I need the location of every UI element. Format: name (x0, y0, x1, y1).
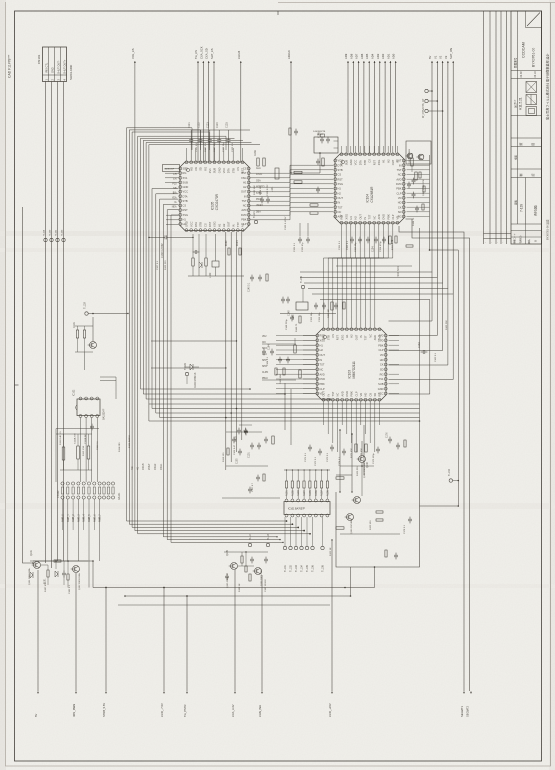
net SHT_ON wire (452, 61, 454, 63)
svg-text:C187 10/16V: C187 10/16V (265, 579, 267, 592)
net CCD+15V wire (331, 540, 333, 691)
transistor Q104 (359, 456, 366, 463)
net SEGMT1 arrow (463, 692, 465, 694)
test point TL140 (449, 479, 452, 482)
svg-text:C174 0.1: C174 0.1 (339, 456, 341, 466)
svg-text:C154 470p: C154 470p (380, 241, 382, 252)
box M3B connector left of IC104 (314, 137, 338, 153)
test point TL131 (56, 238, 59, 241)
wire Q104 top (361, 441, 363, 456)
capacitor C105 (238, 450, 242, 452)
jumper J3 (425, 109, 428, 112)
capacitor C179 (394, 554, 398, 556)
svg-text:C131 0.1: C131 0.1 (294, 242, 296, 252)
capacitor C154 (374, 238, 378, 240)
svg-text:C133 0.022: C133 0.022 (267, 184, 269, 196)
wire cluster2 rails (224, 551, 268, 553)
svg-text:Q102 2SD1819A: Q102 2SD1819A (78, 573, 81, 590)
capacitor C132 (306, 238, 310, 240)
wire IC102 pin drops (80, 418, 82, 483)
title block diagonal cell (525, 11, 527, 28)
capacitor C151 (350, 238, 354, 240)
resistor R148 (289, 128, 291, 135)
svg-text:R133 10K: R133 10K (254, 185, 256, 195)
capacitor C158 (281, 298, 285, 300)
svg-text:NEA: NEA (172, 206, 177, 209)
cluster2 extra parts (245, 566, 247, 572)
resistor R149 (299, 316, 301, 323)
test point TL135 (301, 285, 304, 288)
scan paper edge bottom (5, 765, 551, 767)
capacitor C146 (320, 138, 324, 140)
wire nest IC103 right side loop (389, 272, 433, 321)
test point TL116 (266, 543, 269, 546)
resistor R163 (275, 368, 277, 375)
svg-text:C125 0.1: C125 0.1 (232, 142, 234, 152)
wire to SEGMT1 (399, 226, 464, 691)
wire cluster rails bottom middle (226, 431, 262, 433)
svg-text:R151 4.7K: R151 4.7K (392, 239, 394, 250)
svg-text:BIA: BIA (173, 192, 177, 195)
capacitor C193 (415, 207, 419, 209)
capacitor C103 (264, 438, 268, 440)
title block bottom header cells (511, 230, 542, 232)
svg-text:R188 1K: R188 1K (239, 583, 241, 592)
net CCD_-7.5V arrow (163, 588, 165, 692)
wire IC105 upper left pins short stubs (165, 168, 179, 170)
net V3 wire (447, 61, 449, 63)
wire bottom rail C (33, 560, 93, 562)
resistor R145 (411, 158, 413, 166)
resistor R161 (294, 345, 296, 353)
svg-text:C135 0.1/25V: C135 0.1/25V (285, 216, 287, 230)
resistor R113A (87, 446, 90, 459)
resistor network RA102 (102, 482, 105, 485)
resistor R181 (47, 570, 49, 577)
svg-text:R110 150: R110 150 (223, 452, 225, 462)
svg-text:Q101 2SB1218A: Q101 2SB1218A (28, 568, 31, 585)
component on M3B box top (321, 134, 325, 137)
capacitor C181 (62, 572, 66, 574)
capacitor C134 (266, 198, 270, 200)
resistor R113 (263, 474, 265, 481)
frame tick top center (277, 11, 279, 15)
connector CN101 table (43, 47, 67, 82)
wire IC104 right pins to rail (407, 160, 430, 162)
svg-text:C164 0.1: C164 0.1 (267, 356, 269, 366)
jumper J2 (425, 99, 428, 102)
regulator IC106 box (163, 165, 180, 172)
wire IC103 left rail (262, 343, 296, 345)
svg-text:C148 220p: C148 220p (286, 319, 288, 330)
wire transistor area rails (340, 465, 374, 467)
wire mid bundle extra line (149, 404, 420, 421)
resistor R185 (241, 556, 243, 563)
test point TL126 (185, 372, 188, 375)
resistor R171 (355, 444, 357, 452)
wire drops from bundle top east ends (191, 128, 193, 150)
svg-text:R163 10K: R163 10K (280, 374, 282, 384)
capacitor C133 (260, 198, 264, 200)
net TG_CS (197, 61, 199, 63)
capacitor C104 (244, 430, 248, 432)
capacitor C127 (194, 250, 196, 254)
svg-text:C123 18p: C123 18p (214, 142, 216, 152)
wire mid horizontal y368 (151, 367, 226, 369)
diode D103 (30, 572, 33, 578)
svg-text:C151 0.1: C151 0.1 (339, 240, 341, 250)
capacitor C162 (278, 358, 282, 360)
capacitor C186 (264, 558, 268, 560)
svg-text:C121 0.1: C121 0.1 (196, 142, 198, 152)
transistor Q101 (34, 562, 41, 569)
net STRB_5.5V arrow (105, 588, 107, 692)
resistor R126 (266, 274, 268, 281)
resistor R137 (263, 158, 265, 166)
wire IC103 right remaining stubs (389, 335, 400, 337)
svg-text:Q105 2SB1132: Q105 2SB1132 (227, 572, 229, 588)
capacitor C106 (232, 438, 236, 440)
svg-text:C172 0.1: C172 0.1 (315, 456, 317, 466)
capacitor C191 (412, 179, 416, 181)
resistor R127 (192, 258, 194, 266)
resistor R121 (336, 477, 344, 479)
resistor R162 (299, 370, 301, 378)
svg-text:C173 0.1: C173 0.1 (327, 452, 329, 462)
capacitor C144 (258, 276, 262, 278)
resistor R124 (239, 248, 241, 255)
wire bundle IC105 left pin lines (152, 189, 420, 409)
diode D104 (190, 364, 193, 370)
capacitor C140 (250, 276, 254, 278)
resistor R122 (336, 527, 344, 529)
frame tick left middle (15, 384, 19, 386)
cluster1 wire verticals (55, 561, 57, 569)
scan paper edge right (550, 2, 552, 766)
wire RA101 drops (67, 499, 69, 561)
resistor R132 (294, 181, 302, 183)
capacitor C176 (388, 438, 392, 440)
net SHT_CS (213, 61, 215, 63)
net CXA_3.3V arrow (234, 570, 236, 691)
transistor Q109 (354, 497, 361, 504)
wire right rail (419, 228, 421, 475)
resistor R192 (423, 186, 425, 192)
capacitor C173 (330, 446, 334, 448)
resistor R151 (389, 236, 391, 244)
resistor R112 (77, 446, 80, 459)
svg-text:R123 150: R123 150 (370, 520, 372, 530)
wire CN101 pin1 (45, 82, 47, 564)
net CXA_SCK (202, 61, 204, 63)
capacitor C165 (262, 350, 266, 352)
svg-text:C171 0.1: C171 0.1 (305, 452, 307, 462)
svg-text:R187 47K: R187 47K (45, 582, 47, 592)
capacitor C119 (244, 429, 248, 431)
wire TL135 stub (302, 289, 304, 302)
svg-text:R120 330: R120 330 (357, 466, 359, 476)
wire left 5V rail (23, 207, 34, 563)
svg-text:R157 1M: R157 1M (328, 309, 330, 318)
wire IC105 top pin stubs (186, 148, 188, 161)
svg-text:R171 47K: R171 47K (351, 448, 353, 458)
capacitor C145 (407, 183, 411, 185)
net SEGMT2 arrow (470, 692, 472, 694)
capacitor C118 (237, 429, 241, 431)
wire IC102 lower rails (56, 428, 99, 430)
svg-text:C153 18p: C153 18p (355, 242, 357, 252)
wire rail above resistor row (284, 469, 330, 471)
capacitor row C121-C125 above IC105 (192, 129, 250, 131)
svg-text:C122 0.1: C122 0.1 (205, 142, 207, 152)
capacitor C142 (316, 188, 320, 190)
net VOL_CS (134, 61, 136, 63)
transistor Q107 (407, 153, 413, 159)
transistor Q110 (347, 514, 354, 521)
svg-text:C152 0.1: C152 0.1 (347, 240, 349, 250)
net TG_PSTR arrow (186, 596, 188, 691)
net CLK24 (240, 61, 242, 63)
title block sheet cell divider (525, 178, 527, 225)
svg-text:C156 18p: C156 18p (319, 312, 321, 322)
capacitor C102 (257, 444, 261, 446)
resistor R191 (419, 172, 421, 178)
inductor L101 (275, 168, 279, 179)
resistor R111 (62, 447, 65, 460)
svg-text:Q109 2SC4081: Q109 2SC4081 (351, 518, 353, 534)
capacitor C141 (316, 160, 320, 162)
capacitor C107 (256, 476, 260, 478)
transistor Q106 (255, 568, 262, 575)
junction dots (124, 595, 126, 597)
svg-text:C106 0.47: C106 0.47 (234, 444, 236, 455)
resistor R172 (365, 444, 367, 452)
wire IC104 right pin rail (429, 155, 431, 250)
svg-text:CH: CH (173, 174, 177, 176)
capacitor C108 (248, 488, 252, 490)
digital signal processor IC103 (317, 329, 386, 400)
svg-text:Q104 2SK1398: Q104 2SK1398 (364, 462, 366, 478)
svg-text:C163 0.1: C163 0.1 (435, 352, 437, 362)
resistor R193 (422, 204, 424, 210)
svg-text:C182 0.1: C182 0.1 (69, 584, 71, 594)
wire bottom rail A (93, 567, 375, 588)
resistor R122 (228, 248, 230, 255)
capacitor C156 (322, 304, 326, 306)
resistor R152 (395, 236, 397, 243)
transistor Q108 (418, 154, 424, 160)
resistor R157 (331, 302, 333, 310)
capacitor C101 (250, 444, 254, 446)
transistor Q105 (231, 563, 238, 570)
wire bus IC104 to IC103 (324, 225, 342, 328)
resistor R131 (294, 171, 302, 173)
wire Q103 rails (75, 325, 93, 327)
wire M3B to IC104 (334, 140, 339, 142)
wire X151 rail (280, 313, 336, 315)
capacitor C175 (376, 448, 380, 450)
capacitor C157 (286, 298, 290, 300)
title block kanji header column (517, 11, 519, 224)
resistor R136 (257, 158, 259, 166)
op-amp IC102 (77, 399, 100, 416)
wire CN101 pin2 (51, 82, 53, 569)
inductor L102 (212, 261, 219, 267)
resistor R141 (322, 158, 324, 166)
capacitor C177 (396, 444, 400, 446)
wire bus IC105 to IC104 (251, 165, 334, 173)
capacitor C192 (412, 193, 416, 195)
resistor R109 (272, 436, 274, 444)
wire IC103 bottom drops (323, 402, 325, 426)
svg-text:C155 18p: C155 18p (311, 312, 313, 322)
capacitor C139 (148, 237, 150, 239)
svg-text:C127 0.1: C127 0.1 (157, 260, 159, 270)
cluster1 extra: resistor R183 (67, 574, 69, 580)
net 5V top wire (431, 61, 433, 63)
wire IC104 top pin stubs (341, 146, 343, 153)
wire IC105 lower-left pin stubs (166, 214, 179, 216)
resistor R175 (404, 440, 406, 447)
resistor R158 (343, 302, 345, 309)
test point TL119 (44, 238, 47, 241)
svg-text:C111 0.1: C111 0.1 (97, 441, 99, 450)
svg-text:R112 1.5K: R112 1.5K (83, 445, 85, 456)
shield box outline (336, 475, 420, 567)
capacitor C153 (366, 238, 370, 240)
capacitor C152 (358, 238, 362, 240)
capacitor C131 (298, 238, 302, 240)
title block outline (511, 11, 542, 244)
capacitor C155 (314, 304, 318, 306)
wire IC103 left drop 2 (290, 389, 292, 445)
scan paper edge left (5, 2, 7, 766)
net V1 wire (436, 61, 438, 63)
analog front end IC104 (335, 154, 404, 223)
wire bundle through lines with top corners (127, 128, 287, 521)
resistor R123 (376, 511, 383, 513)
driver IC101 (284, 502, 330, 515)
resistor R164 (283, 368, 285, 375)
wire mid horizontal y341 (151, 340, 237, 342)
resistor R186 (249, 574, 251, 581)
resistor R176 (385, 550, 387, 557)
wire RA101 lower links (62, 499, 64, 530)
capacitor C147 (326, 138, 330, 140)
net 5V arrow (37, 570, 39, 691)
svg-text:C132 47p: C132 47p (302, 242, 304, 252)
svg-text:Q106 2SD1782K: Q106 2SD1782K (261, 569, 263, 586)
svg-text:Q107 2SC4081: Q107 2SC4081 (409, 148, 411, 164)
wire bottom rail B (125, 567, 351, 596)
resistor row R101-R108 (285, 481, 287, 488)
svg-text:R134 10K: R134 10K (260, 185, 262, 195)
svg-text:P10: P10 (172, 183, 177, 185)
svg-text:R149 75: R149 75 (296, 323, 298, 332)
capacitor C161 (286, 358, 290, 360)
capacitor C178 (408, 518, 412, 520)
svg-text:R172 47K: R172 47K (361, 448, 363, 458)
IC103 left pin extended stubs (276, 335, 316, 337)
wire IC103 left drop 1 (284, 383, 286, 430)
resistor R128 (205, 258, 207, 266)
wire IC103 bottom long drops to shield box (339, 430, 341, 492)
wire to SEGMT2 (406, 219, 470, 691)
capacitor C185 (225, 575, 229, 577)
title block revision columns (483, 11, 485, 244)
svg-text:R125 220: R125 220 (165, 260, 167, 270)
wire CN101 pin3 (57, 82, 59, 562)
transistor Q102 (73, 566, 80, 573)
capacitor C171 (308, 446, 312, 448)
wire IC103 left stubs (303, 335, 316, 337)
svg-text:C107 4.7: C107 4.7 (252, 482, 254, 492)
capacitor C164 (270, 350, 274, 352)
svg-text:Q108 2SA1037K: Q108 2SA1037K (422, 179, 425, 196)
svg-text:R165 22K: R165 22K (446, 320, 448, 330)
box shield around Q107 Q108 (406, 141, 431, 164)
test point TL133 (62, 238, 65, 241)
test point TL108 (321, 546, 324, 549)
resistor R146 (415, 172, 417, 180)
capacitor C163 (422, 350, 424, 354)
net CXA_SD (208, 61, 210, 63)
capacitor C174 (342, 450, 346, 452)
wire IC105 bottom drop 1 (225, 232, 227, 470)
transistor Q103 (90, 342, 97, 349)
resistor R142 (310, 204, 318, 206)
scan paper edge top (278, 2, 555, 4)
svg-text:EN: EN (173, 179, 177, 181)
title block divider rows (511, 70, 542, 72)
resistor R182 (54, 560, 61, 562)
op-amp timing generator IC105 (180, 162, 249, 231)
wire bottom long rail D (118, 604, 330, 606)
wire below IC104 rail (336, 265, 412, 267)
wire CN101 pin4 (63, 82, 65, 562)
bus AD0-AD9 (347, 61, 349, 63)
scan noise (0, 0, 1, 1)
svg-text:C178 0.1: C178 0.1 (404, 524, 406, 534)
wire junction rail below IC105 (188, 275, 244, 277)
svg-text:R144 75: R144 75 (413, 217, 415, 226)
resistor R153 (406, 245, 413, 247)
svg-text:C124 18p: C124 18p (223, 142, 225, 152)
svg-text:R114 680: R114 680 (119, 442, 121, 452)
svg-text:R122 1K: R122 1K (330, 547, 332, 556)
title block revision bottom cells (484, 233, 512, 235)
wire IC102 top pair (100, 376, 116, 378)
net V2 wire (442, 61, 444, 63)
title block stamp squares (526, 82, 537, 93)
wire IC105 bottom drop 3 (236, 232, 238, 452)
svg-text:NB: NB (173, 188, 177, 190)
resistor R117 (83, 330, 85, 338)
resistor R125 (376, 519, 383, 521)
wire Q103 collector (92, 317, 94, 342)
wire cluster1 (30, 560, 88, 562)
resistor network RA101 (61, 482, 64, 485)
wire IC105 bottom drop 2 (230, 232, 232, 462)
cluster1 extra: diode D105 (55, 571, 58, 577)
capacitor C111 (90, 425, 94, 427)
extra caps upper IC104 left (294, 130, 298, 132)
wire ADCLK to M3B (291, 153, 320, 173)
resistor R110 (227, 448, 229, 455)
test point TL130 (50, 238, 53, 241)
wire IC105 bottom drop 4 (241, 232, 243, 440)
capacitor C172 (318, 450, 322, 452)
